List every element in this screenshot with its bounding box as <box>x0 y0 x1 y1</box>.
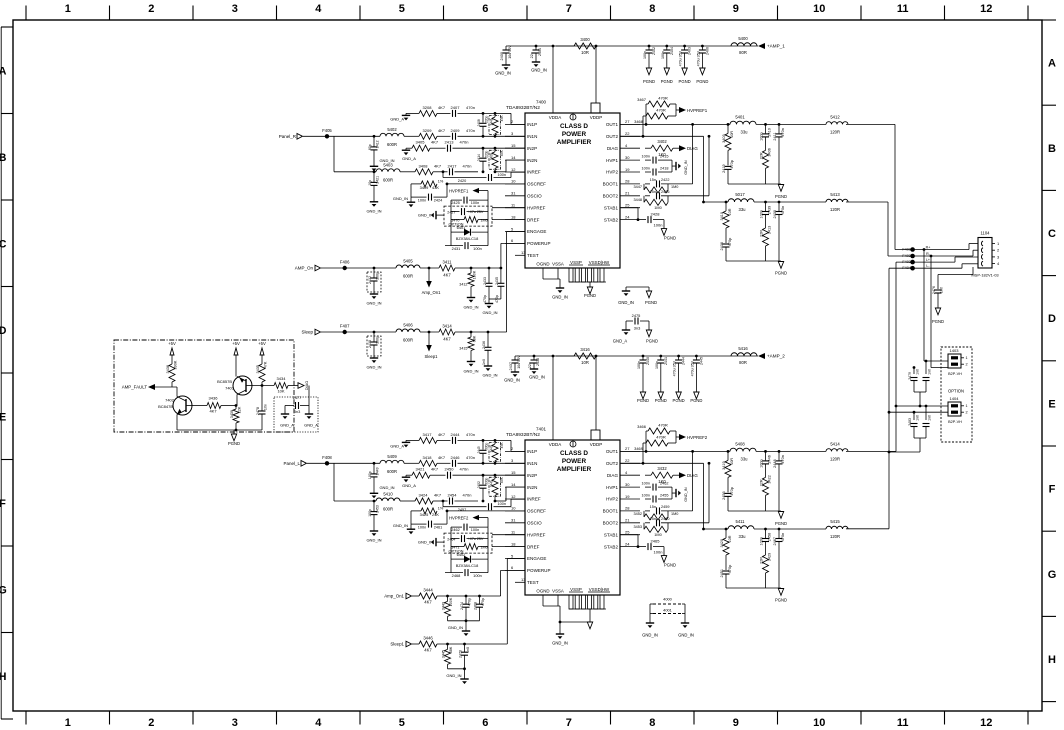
svg-text:Amp_On1: Amp_On1 <box>422 290 442 295</box>
svg-text:PGND: PGND <box>679 79 691 84</box>
net label HVPREF1 <box>676 104 708 116</box>
svg-text:PGND: PGND <box>584 293 596 298</box>
IC 7400 VDDA/VDDP top pin labels <box>549 114 603 120</box>
svg-text:5401: 5401 <box>735 114 745 119</box>
dash-dot box input resistor 1 <box>489 443 501 462</box>
resistor 3448 1M0 BOOT2 parallel <box>634 196 668 210</box>
svg-text:5415: 5415 <box>830 519 840 524</box>
svg-text:3418: 3418 <box>423 455 433 460</box>
svg-text:27: 27 <box>625 446 630 451</box>
svg-text:INREF: INREF <box>527 497 541 502</box>
transistor Q7402 BC847B <box>158 387 192 430</box>
terminal Sleep input <box>301 329 344 335</box>
terminal Panel_R input <box>279 134 326 140</box>
resistor 3443 100K to GND_IN <box>442 595 454 621</box>
ground PGND under 2404 <box>661 68 673 84</box>
svg-text:100n: 100n <box>418 199 426 203</box>
capacitor 2456 470p snubber <box>722 487 734 511</box>
IC 7400 pin 6 POWERUP stub <box>505 238 551 246</box>
IC 7401 VDDA/VDDP top pin labels <box>549 441 603 447</box>
inductor 5414 120R ferrite <box>826 441 848 461</box>
svg-text:PGND: PGND <box>655 398 667 403</box>
capacitor 2477 3n3 snubber <box>285 386 309 415</box>
capacitor 2460 15n BOOT2 <box>645 517 709 527</box>
resistor 3452 1M0 BOOT1 parallel <box>634 511 679 520</box>
ground PGND IC bottom <box>587 622 592 629</box>
svg-text:Sleep: Sleep <box>301 330 313 335</box>
svg-text:4K7: 4K7 <box>209 409 217 414</box>
IC 7401 pin 3 IN1N stub <box>505 458 537 466</box>
ground PGND under 2444 <box>673 392 685 403</box>
wire branch to row4 <box>334 136 376 172</box>
svg-text:GND_A: GND_A <box>390 116 404 121</box>
capacitor 2407 470n row1 <box>437 105 495 117</box>
svg-text:3434: 3434 <box>277 376 287 381</box>
capacitor 2453 10p to GND_IN <box>368 500 380 531</box>
svg-text:33u: 33u <box>739 534 747 539</box>
svg-text:4K7: 4K7 <box>438 128 446 133</box>
wire 1404 pin2 net <box>888 411 948 414</box>
svg-text:F408: F408 <box>322 455 332 460</box>
svg-text:OSCREF: OSCREF <box>527 509 546 514</box>
wire R- from upper filter row2 <box>846 202 913 256</box>
svg-text:5408: 5408 <box>735 441 745 446</box>
svg-text:STAB1: STAB1 <box>604 205 619 210</box>
ground GND_IN under 3415 <box>463 362 478 374</box>
IC 7401 pin 5 ENGAGE stub <box>505 553 546 561</box>
svg-text:2425: 2425 <box>451 201 459 205</box>
svg-text:10R: 10R <box>730 458 734 465</box>
svg-text:10n: 10n <box>264 404 268 410</box>
IC 7400 title text <box>557 123 592 146</box>
IC 7401 pin 6 POWERUP stub <box>505 565 551 573</box>
svg-text:1n0: 1n0 <box>928 369 932 375</box>
svg-text:VDDA: VDDA <box>549 115 562 120</box>
svg-text:1n0: 1n0 <box>916 369 920 375</box>
capacitor 2449 60p to GND_IN <box>368 462 380 493</box>
svg-text:GND_IN: GND_IN <box>642 633 658 638</box>
svg-text:GND_A: GND_A <box>613 339 628 344</box>
right row ticks <box>1042 20 1056 702</box>
svg-text:3467: 3467 <box>637 97 647 102</box>
capacitor 2455 100n HVP2 <box>642 494 672 503</box>
resistor 3466 470R HVPREF divider <box>637 423 676 452</box>
ground PGND tie 2 <box>646 330 658 344</box>
svg-text:68K: 68K <box>449 646 453 653</box>
svg-text:47K: 47K <box>500 442 504 449</box>
svg-text:GND_IN: GND_IN <box>393 523 408 528</box>
capacitor 2427 47u 25V option <box>447 206 488 215</box>
svg-text:470R: 470R <box>656 108 666 113</box>
resistor 3470 1M0 option <box>451 200 488 232</box>
net label AMP_FAULT output <box>122 384 177 390</box>
svg-text:100n: 100n <box>642 482 650 486</box>
resistor 3441 47K vertical <box>490 112 504 138</box>
svg-text:19: 19 <box>625 494 630 499</box>
svg-text:3414: 3414 <box>442 324 452 329</box>
ferrite bead F401 node <box>902 247 915 252</box>
capacitor 2402 100n to PGND <box>643 45 656 68</box>
IC 7400 pin 31 OSCIO stub <box>505 191 542 199</box>
svg-text:1M0: 1M0 <box>654 206 661 210</box>
svg-text:GND_IN: GND_IN <box>684 487 688 502</box>
svg-text:2459: 2459 <box>661 505 669 509</box>
svg-text:3441: 3441 <box>490 480 494 487</box>
svg-text:DREF: DREF <box>527 217 540 222</box>
wire L+ from lower filter row1 <box>846 262 913 451</box>
ground GND_IN jumper left <box>642 623 658 638</box>
svg-text:100n: 100n <box>642 155 650 159</box>
resistor 3421 4K7 row3 <box>406 467 439 479</box>
svg-text:2441: 2441 <box>664 357 668 365</box>
svg-text:1403: 1403 <box>950 348 960 353</box>
svg-text:5412: 5412 <box>830 114 840 119</box>
wire VSSP/VSSD to PGND <box>589 282 591 287</box>
svg-text:4K7: 4K7 <box>438 455 446 460</box>
bottom column ticks <box>26 711 1028 725</box>
svg-text:3422: 3422 <box>768 475 772 483</box>
svg-text:120R: 120R <box>830 456 840 461</box>
svg-text:STAB2: STAB2 <box>604 217 619 222</box>
IC 7401 pin 12 INREF stub <box>505 494 541 502</box>
svg-text:3410: 3410 <box>720 212 724 220</box>
svg-text:3447: 3447 <box>634 185 642 189</box>
svg-text:100n: 100n <box>471 201 479 205</box>
ground PGND under 2476 <box>932 308 944 324</box>
svg-text:22R: 22R <box>760 557 764 564</box>
svg-text:CLASS D: CLASS D <box>560 123 588 130</box>
svg-text:3441: 3441 <box>490 118 494 125</box>
svg-text:Panel_R: Panel_R <box>279 134 297 139</box>
capacitor 2436 1n0 to GND_IN <box>482 331 491 365</box>
inductor 5411 33u output filter <box>704 519 827 539</box>
svg-text:6: 6 <box>482 3 488 15</box>
resistor 3447 1M0 BOOT1 parallel <box>634 184 679 193</box>
resistor 3468 470R HVPREF divider <box>634 108 676 138</box>
svg-text:B2P-VH: B2P-VH <box>948 372 962 376</box>
IC 7401 title text <box>557 450 592 473</box>
IC 7400 pin 22 OUT2 stub <box>606 131 640 139</box>
svg-text:OPTION: OPTION <box>948 389 964 394</box>
svg-text:220p: 220p <box>485 116 489 123</box>
ground GND_IN under 2401 <box>531 62 547 73</box>
net label HVPREF1 <box>449 188 488 200</box>
svg-text:PGND: PGND <box>690 398 702 403</box>
svg-text:3413: 3413 <box>768 226 772 234</box>
svg-text:120R: 120R <box>830 534 840 539</box>
svg-text:100n: 100n <box>643 51 647 59</box>
svg-text:4000: 4000 <box>663 597 672 602</box>
ground GND_IN <box>448 625 470 636</box>
svg-text:A: A <box>0 65 7 77</box>
capacitor 2484 1n0 <box>923 405 932 438</box>
svg-text:F403: F403 <box>902 260 911 264</box>
svg-text:VSSD|HW: VSSD|HW <box>589 587 610 592</box>
resistor 3422 22R zobel <box>760 475 772 511</box>
wire OUT2 to lower filter row <box>620 136 705 203</box>
svg-text:470p: 470p <box>730 487 734 495</box>
svg-text:G: G <box>1048 569 1057 581</box>
capacitor 2464 47u 25V option <box>447 533 488 542</box>
svg-text:9: 9 <box>733 717 739 729</box>
capacitor 2438 22n rail decoupling <box>528 355 540 369</box>
ground GND_A left <box>280 414 294 428</box>
svg-text:2452: 2452 <box>477 481 481 488</box>
ground PGND under 2406 <box>696 68 708 84</box>
resistor 3425 24K 1% OSCREF <box>411 506 525 517</box>
ground PGND for STAB <box>661 547 676 568</box>
IC 7400 pin 4 DIAG stub <box>607 143 640 151</box>
svg-text:470n: 470n <box>466 105 475 110</box>
wire bottoms join <box>448 619 480 631</box>
inductor 5413 120R ferrite <box>826 192 848 212</box>
capacitor 2432 100p in dashed box <box>367 267 381 294</box>
capacitor 2462 100n <box>451 524 488 534</box>
svg-text:43K: 43K <box>432 185 439 190</box>
svg-text:+AMP_2: +AMP_2 <box>767 353 785 358</box>
svg-text:PGND: PGND <box>775 271 787 276</box>
svg-text:1M0: 1M0 <box>654 533 661 537</box>
svg-text:600R: 600R <box>403 274 413 279</box>
svg-text:HVP1: HVP1 <box>606 485 618 490</box>
svg-text:B: B <box>0 152 7 164</box>
svg-text:600R: 600R <box>403 338 413 343</box>
capacitor 2414 220p between IN2P/IN2N <box>477 147 489 173</box>
svg-text:IN1N: IN1N <box>527 461 537 466</box>
svg-text:+5V: +5V <box>232 341 240 346</box>
svg-text:4K7: 4K7 <box>438 432 446 437</box>
svg-text:19: 19 <box>625 167 630 172</box>
svg-text:AMP_On: AMP_On <box>295 266 314 271</box>
svg-text:GND_A: GND_A <box>402 156 416 161</box>
svg-text:470p: 470p <box>483 295 487 303</box>
wire row4 to IN2N pin <box>495 487 525 501</box>
svg-text:6: 6 <box>482 717 488 729</box>
IC 7401 pin 19 HVP2 stub <box>606 494 640 502</box>
svg-text:C: C <box>0 238 7 250</box>
svg-text:100n: 100n <box>760 210 764 218</box>
wire row4 to IN2N pin <box>495 160 525 172</box>
capacitor 2467 470n <box>773 528 785 588</box>
net label HVPREF2 <box>449 515 488 527</box>
svg-text:GND_IN: GND_IN <box>379 485 394 490</box>
svg-text:7400: 7400 <box>536 100 547 105</box>
svg-text:33u: 33u <box>741 129 749 134</box>
resistor 3410 10R snubber <box>720 201 732 243</box>
svg-text:2436: 2436 <box>720 242 724 250</box>
svg-text:220p: 220p <box>485 150 489 157</box>
svg-text:GND_IN: GND_IN <box>463 305 478 310</box>
op-amp U7400 TDA8932BT class D amplifier body <box>525 113 620 268</box>
wire jumper left leg <box>649 604 651 623</box>
svg-text:18: 18 <box>511 541 516 546</box>
capacitor 2418 100n HVP2 <box>642 167 672 176</box>
svg-text:100p: 100p <box>368 471 372 479</box>
svg-text:5414: 5414 <box>830 441 840 446</box>
svg-text:5405: 5405 <box>403 259 413 264</box>
IC 7401 pin 22 OUT2 stub <box>606 458 640 466</box>
svg-text:GND_IN: GND_IN <box>366 208 381 213</box>
wire Sleep row to IC pin <box>507 232 525 333</box>
svg-text:10: 10 <box>511 506 516 511</box>
svg-text:100p: 100p <box>376 272 380 280</box>
svg-text:+47u 25V: +47u 25V <box>468 210 484 214</box>
resistor 3429 22R zobel <box>760 553 772 588</box>
svg-text:TEST: TEST <box>527 580 539 585</box>
svg-text:3436: 3436 <box>209 396 219 401</box>
svg-text:2446: 2446 <box>768 455 772 463</box>
svg-text:2445: 2445 <box>699 357 703 365</box>
ground PGND block <box>228 430 240 446</box>
capacitor 2461 100n parallel <box>411 510 448 530</box>
IC 7400 reference label <box>506 100 547 112</box>
IC 7401 pin 30 HVP1 stub <box>606 482 640 490</box>
svg-text:5413: 5413 <box>830 192 840 197</box>
svg-text:PGND: PGND <box>664 236 676 241</box>
svg-text:1: 1 <box>65 3 71 15</box>
svg-text:15n: 15n <box>650 505 656 509</box>
svg-text:31: 31 <box>511 191 516 196</box>
svg-text:IN2N: IN2N <box>527 158 537 163</box>
svg-text:100n: 100n <box>473 573 482 578</box>
inductor 5402 600R row2 <box>345 127 419 147</box>
block bottom ground rail <box>177 429 262 432</box>
capacitor 2444 470u 35V to PGND <box>673 355 686 392</box>
capacitor 2433 470p to GND_IN <box>483 267 492 303</box>
wire ground tie IC2 bottom <box>559 621 590 624</box>
svg-text:2468: 2468 <box>474 602 478 610</box>
svg-text:L+: L+ <box>926 258 930 262</box>
svg-text:IN1P: IN1P <box>527 122 537 127</box>
capacitor 2459 15n BOOT1 <box>645 505 693 515</box>
svg-text:POWERUP: POWERUP <box>527 241 551 246</box>
svg-text:STAB2: STAB2 <box>604 544 619 549</box>
capacitor 2458 100n zobel <box>760 528 772 555</box>
resistor 3400 10R rail <box>556 37 596 55</box>
svg-text:2408: 2408 <box>477 119 481 126</box>
svg-text:11: 11 <box>897 3 909 15</box>
svg-text:2446: 2446 <box>451 455 461 460</box>
node VDDP drop <box>591 355 600 440</box>
capacitor 2483 1n0 <box>908 411 920 438</box>
svg-text:3412: 3412 <box>459 283 467 287</box>
resistor 3208 4K7 row1 <box>406 105 446 117</box>
svg-text:3: 3 <box>232 717 238 729</box>
svg-text:3421: 3421 <box>416 467 426 472</box>
svg-text:R+: R+ <box>926 246 931 250</box>
svg-text:100n: 100n <box>655 361 659 369</box>
svg-text:2413: 2413 <box>445 140 455 145</box>
svg-text:3439: 3439 <box>230 410 234 418</box>
ground GND_IN for option box <box>418 211 444 219</box>
svg-text:4K7: 4K7 <box>438 105 446 110</box>
svg-text:3440: 3440 <box>490 445 494 452</box>
svg-text:2411: 2411 <box>773 132 777 140</box>
svg-text:3438: 3438 <box>166 365 170 373</box>
svg-text:2478: 2478 <box>256 407 260 415</box>
svg-text:DIAG: DIAG <box>607 146 619 151</box>
svg-text:13: 13 <box>521 577 526 582</box>
svg-text:2457: 2457 <box>458 508 466 512</box>
svg-text:10u 50V: 10u 50V <box>517 355 521 369</box>
svg-text:3403: 3403 <box>722 134 726 142</box>
svg-text:ENGAGE: ENGAGE <box>527 556 546 561</box>
svg-text:47K: 47K <box>500 115 504 122</box>
capacitor 2436 470p snubber <box>720 238 732 261</box>
ground GND_IN for OSCREF network <box>393 196 415 207</box>
svg-text:7: 7 <box>566 3 572 15</box>
svg-text:2477: 2477 <box>293 395 302 400</box>
svg-text:2404: 2404 <box>670 47 674 55</box>
resistor 3417 4K7 row1 <box>406 432 446 444</box>
capacitor 2465 100n STAB2 <box>640 539 664 555</box>
svg-text:24K: 24K <box>432 512 439 517</box>
capacitor 2421 10p to GND_IN <box>368 170 380 201</box>
svg-text:OSCREF: OSCREF <box>527 182 546 187</box>
svg-text:1: 1 <box>966 356 968 360</box>
dash-dot box input resistor 1 <box>489 116 501 135</box>
IC 7400 OGND/VSSA bottom stubs <box>543 268 560 279</box>
svg-text:DIAG: DIAG <box>304 381 309 391</box>
capacitor 2470 1n0 <box>459 643 471 669</box>
svg-text:GND_A: GND_A <box>304 423 318 428</box>
svg-text:470n: 470n <box>460 140 469 145</box>
terminal +AMP_1 <box>758 43 785 49</box>
ground GND_IN IC bottom <box>552 288 568 300</box>
ground PGND IC bottom <box>584 287 596 298</box>
svg-text:2: 2 <box>148 717 154 729</box>
svg-text:24: 24 <box>625 214 630 219</box>
IC 7401 pin 10 OSCREF stub <box>505 506 546 514</box>
svg-text:OUT1: OUT1 <box>606 449 619 454</box>
svg-text:2461: 2461 <box>434 526 442 530</box>
svg-text:PGND: PGND <box>646 339 658 344</box>
ground GND_IN under 10p cap <box>366 531 381 543</box>
node VDDA drop <box>552 45 555 113</box>
svg-text:25: 25 <box>625 530 630 535</box>
capacitor 2404 100n to PGND <box>661 45 674 68</box>
svg-text:2436: 2436 <box>482 341 486 349</box>
svg-text:12: 12 <box>511 494 516 499</box>
IC 7400 pin 3 IN1N stub <box>505 131 537 139</box>
svg-text:+47u 25V: +47u 25V <box>468 537 484 541</box>
capacitor 2437 10u 50V rail decoupling <box>509 355 521 372</box>
capacitor 2424 100n parallel <box>411 183 448 203</box>
svg-text:3409: 3409 <box>420 185 429 190</box>
wire option tap 1 <box>923 248 948 361</box>
svg-text:OUT2: OUT2 <box>606 461 619 466</box>
svg-text:1M0: 1M0 <box>671 185 678 189</box>
svg-text:BZX384-C18: BZX384-C18 <box>456 236 479 241</box>
svg-text:390K: 390K <box>174 360 178 369</box>
svg-text:3420: 3420 <box>720 539 724 547</box>
svg-text:2415: 2415 <box>660 155 668 159</box>
svg-text:1: 1 <box>65 717 71 729</box>
svg-text:10K: 10K <box>277 389 284 394</box>
svg-text:BC847B: BC847B <box>158 404 173 409</box>
svg-text:470n: 470n <box>781 128 785 136</box>
svg-text:470u 35V: 470u 35V <box>690 360 694 376</box>
svg-text:4K7: 4K7 <box>434 493 442 498</box>
ground PGND under 2403 <box>679 68 691 84</box>
svg-text:CLASS D: CLASS D <box>560 450 588 457</box>
svg-text:22R: 22R <box>760 479 764 486</box>
resistor 3412 150K to GND_IN <box>459 267 476 298</box>
svg-text:470u 35V: 470u 35V <box>679 50 683 66</box>
inductor 5410 600R row4 <box>376 492 415 512</box>
svg-text:2403: 2403 <box>688 47 692 55</box>
connector 1404 B2P-VH body <box>948 396 968 424</box>
